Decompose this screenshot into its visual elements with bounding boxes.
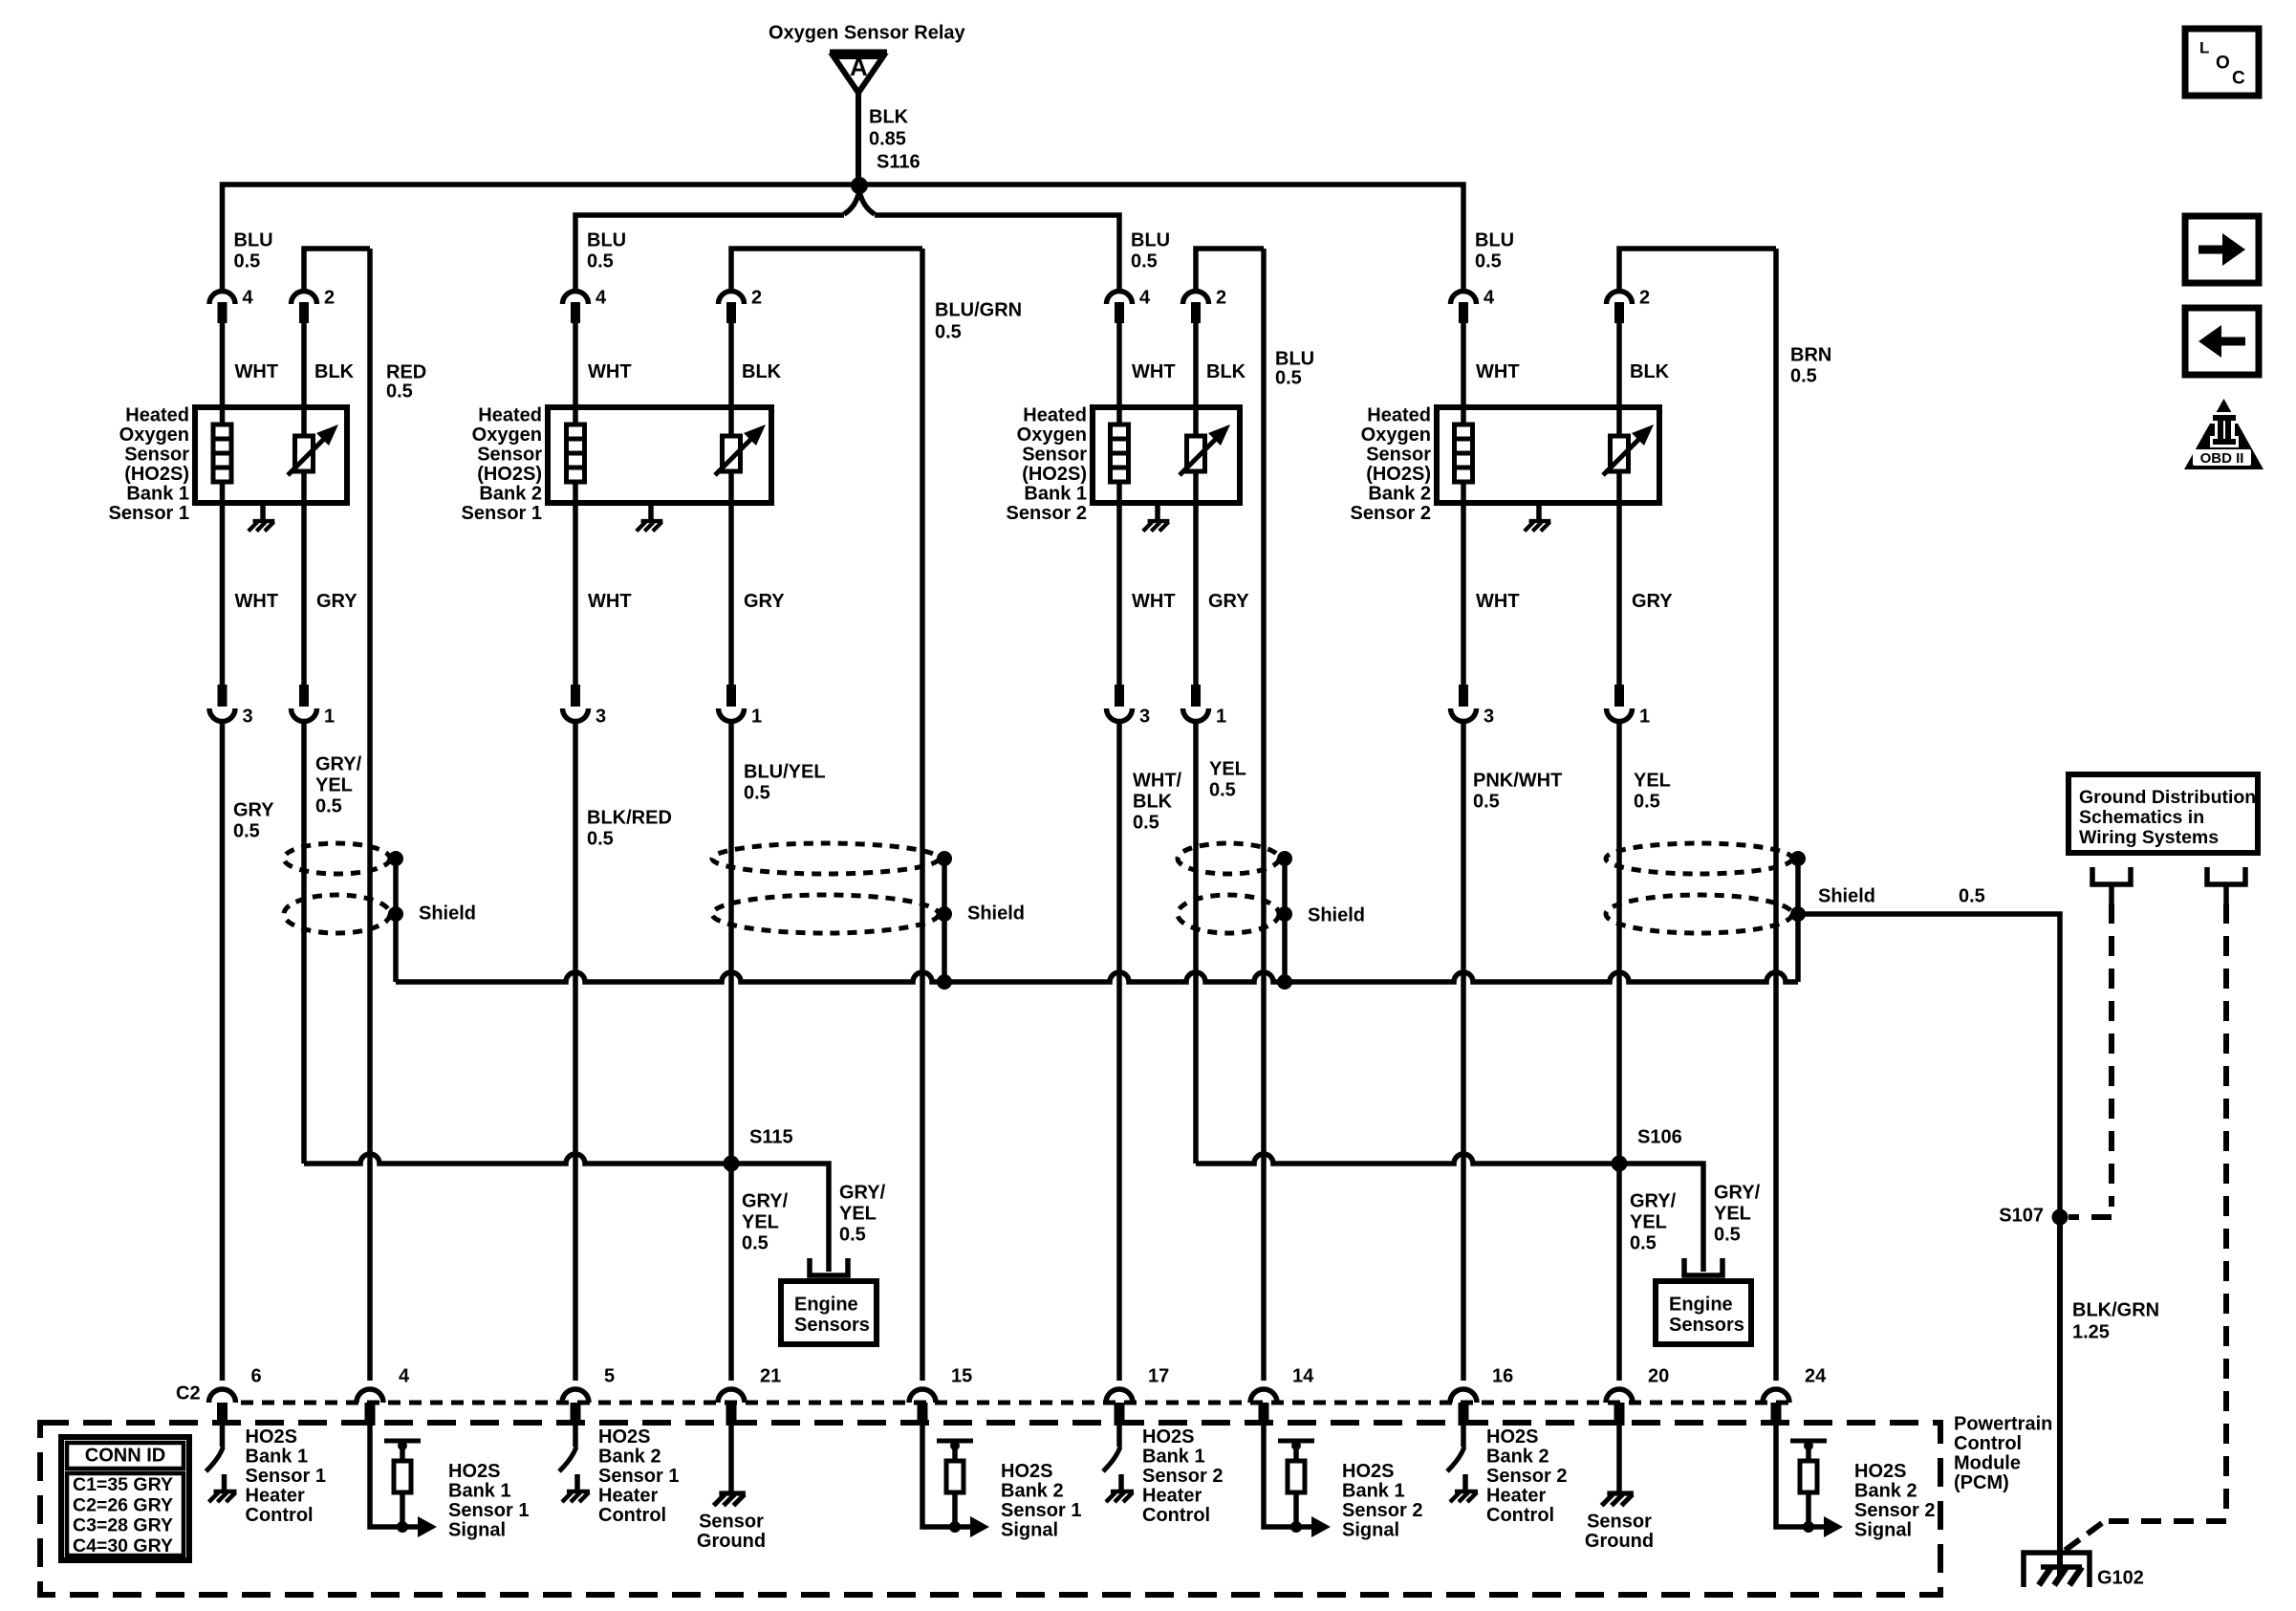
connector pin 1 of HO2S unit 3 bbox=[1183, 708, 1209, 722]
svg-text:0.5: 0.5 bbox=[744, 782, 770, 803]
svg-text:Control: Control bbox=[1486, 1505, 1554, 1526]
node S107 junction dot bbox=[2052, 1209, 2069, 1226]
PCM connector pin 21 bbox=[718, 1389, 745, 1403]
svg-text:C4=30 GRY: C4=30 GRY bbox=[73, 1535, 173, 1557]
wire shield drain unit 1 bbox=[393, 859, 399, 914]
wire GRY/YEL unit1 down to S115 run bbox=[301, 722, 307, 1164]
LOC icon box bbox=[2185, 29, 2259, 96]
receptacle to engine sensors (right) bbox=[1684, 1258, 1722, 1275]
svg-text:Sensor: Sensor bbox=[1022, 444, 1087, 465]
svg-text:4: 4 bbox=[1139, 287, 1151, 308]
connector pin 2 of HO2S unit 1 bbox=[292, 292, 317, 305]
svg-text:Ground: Ground bbox=[697, 1531, 766, 1552]
node S116 junction dot bbox=[851, 177, 868, 194]
svg-text:Bank 2: Bank 2 bbox=[1368, 483, 1431, 504]
ground below HO2S box unit 3 bbox=[1155, 503, 1160, 521]
svg-text:0.5: 0.5 bbox=[1475, 250, 1502, 272]
svg-text:Shield: Shield bbox=[967, 903, 1025, 924]
switch + ground for pin 5 heater control bbox=[573, 1426, 578, 1447]
svg-text:Control: Control bbox=[1954, 1433, 2022, 1454]
svg-text:Bank 1: Bank 1 bbox=[448, 1480, 511, 1501]
svg-text:(HO2S): (HO2S) bbox=[477, 464, 542, 485]
svg-text:GRY: GRY bbox=[233, 799, 274, 820]
svg-text:0.5: 0.5 bbox=[742, 1232, 769, 1253]
node S115 junction dot bbox=[724, 1156, 740, 1172]
svg-text:1: 1 bbox=[751, 706, 762, 727]
svg-text:HO2S: HO2S bbox=[1854, 1461, 1906, 1482]
svg-text:Oxygen Sensor Relay: Oxygen Sensor Relay bbox=[769, 22, 966, 43]
svg-text:WHT/: WHT/ bbox=[1133, 770, 1182, 791]
shield drain dots unit 4 bbox=[1790, 851, 1806, 866]
svg-text:WHT: WHT bbox=[588, 361, 632, 382]
connector pin 4 of HO2S unit 3 bbox=[1107, 292, 1133, 305]
wire shield drain unit 4 bbox=[1795, 859, 1801, 914]
svg-text:S116: S116 bbox=[877, 151, 921, 172]
svg-text:HO2S: HO2S bbox=[448, 1461, 500, 1482]
PCM connector pin 6 bbox=[209, 1389, 236, 1403]
svg-text:0.5: 0.5 bbox=[234, 250, 261, 272]
wire Shield 0.5 run to S107 bbox=[1798, 914, 2060, 1217]
PCM connector pin 24 bbox=[1763, 1389, 1789, 1403]
shield braid (dashed) unit 3 bbox=[1178, 843, 1279, 874]
ground below HO2S box unit 4 bbox=[1536, 503, 1542, 521]
svg-text:Engine: Engine bbox=[1669, 1294, 1733, 1315]
wire shield drain unit4 riser bbox=[1795, 914, 1801, 982]
svg-text:3: 3 bbox=[1484, 706, 1494, 727]
svg-text:(PCM): (PCM) bbox=[1954, 1472, 2009, 1493]
svg-text:Heater: Heater bbox=[1142, 1485, 1202, 1506]
wire BLK sensor lead unit 3 bbox=[1193, 323, 1199, 686]
svg-text:BLU: BLU bbox=[587, 229, 626, 250]
right arrow icon bbox=[2185, 216, 2259, 283]
wire WHT/BLK unit3 to PCM pin17 bbox=[1116, 722, 1122, 1381]
shield braid (dashed) unit 4 bbox=[1606, 843, 1792, 874]
svg-text:Shield: Shield bbox=[1818, 885, 1875, 906]
svg-text:5: 5 bbox=[604, 1365, 615, 1386]
svg-text:GRY/: GRY/ bbox=[839, 1182, 886, 1203]
svg-text:Engine: Engine bbox=[794, 1294, 858, 1315]
PCM connector pin 14 bbox=[1250, 1389, 1277, 1403]
svg-text:Heated: Heated bbox=[1367, 404, 1431, 425]
svg-text:0.5: 0.5 bbox=[1209, 779, 1236, 800]
wire RED 0.5 to PCM pin4 bbox=[367, 249, 373, 1381]
svg-text:0.5: 0.5 bbox=[1630, 1232, 1657, 1253]
svg-text:WHT: WHT bbox=[588, 591, 632, 612]
PCM connector pin 4 bbox=[357, 1389, 383, 1403]
svg-text:Sensor 1: Sensor 1 bbox=[246, 1466, 326, 1487]
wire shield bus with hops bbox=[396, 972, 1798, 982]
svg-text:0.5: 0.5 bbox=[587, 828, 614, 849]
shield braid (dashed) unit 1 bbox=[284, 843, 390, 874]
svg-text:HO2S: HO2S bbox=[1486, 1426, 1538, 1448]
wire riser from pin 2 corner unit 1 bbox=[304, 249, 370, 292]
dashed wire from left receptacle to S107 bbox=[2109, 903, 2114, 1207]
wire riser from pin 2 corner unit 2 bbox=[731, 249, 922, 292]
svg-text:BLK: BLK bbox=[869, 106, 909, 127]
svg-text:1: 1 bbox=[1639, 706, 1650, 727]
svg-text:WHT: WHT bbox=[1476, 361, 1520, 382]
svg-text:Bank 2: Bank 2 bbox=[479, 483, 542, 504]
wire shield drain unit 2 bbox=[942, 859, 947, 914]
svg-text:HO2S: HO2S bbox=[598, 1426, 650, 1448]
svg-text:4: 4 bbox=[596, 287, 607, 308]
wire S115 run from unit1 bbox=[304, 1154, 731, 1164]
svg-text:Ground: Ground bbox=[1585, 1531, 1654, 1552]
receptacle right under ground distribution box bbox=[2207, 867, 2245, 884]
node shield bus junction unit2 bbox=[937, 974, 952, 990]
svg-text:0.5: 0.5 bbox=[1275, 367, 1302, 388]
svg-text:Sensor 1: Sensor 1 bbox=[1001, 1500, 1081, 1521]
HO2S sensor box unit 2 bbox=[548, 407, 771, 503]
switch + ground for pin 6 heater control bbox=[220, 1426, 226, 1447]
svg-text:Ground Distribution: Ground Distribution bbox=[2079, 787, 2256, 808]
svg-text:CONN ID: CONN ID bbox=[85, 1445, 165, 1466]
svg-text:YEL: YEL bbox=[1630, 1211, 1667, 1232]
svg-text:Sensor: Sensor bbox=[477, 444, 542, 465]
wire S106 branch to engine sensors bbox=[1619, 1164, 1703, 1272]
signal branch for pin 24 bbox=[1776, 1426, 1809, 1527]
resistor arrow unit 4 bbox=[1603, 435, 1643, 475]
resistor arrow unit 1 bbox=[288, 435, 328, 475]
svg-text:(HO2S): (HO2S) bbox=[1366, 464, 1431, 485]
wire WHT heater feed unit 3 bbox=[1116, 323, 1122, 686]
svg-text:WHT: WHT bbox=[235, 591, 279, 612]
svg-text:1: 1 bbox=[324, 706, 335, 727]
svg-text:Sensor 1: Sensor 1 bbox=[448, 1500, 529, 1521]
svg-text:Sensor: Sensor bbox=[699, 1511, 764, 1532]
svg-text:Control: Control bbox=[1142, 1505, 1210, 1526]
wire WHT heater feed unit 4 bbox=[1461, 323, 1466, 686]
wire riser from pin 2 corner unit 4 bbox=[1619, 249, 1776, 292]
svg-text:WHT: WHT bbox=[1476, 591, 1520, 612]
svg-text:Signal: Signal bbox=[1854, 1519, 1912, 1540]
switch + ground for pin 17 heater control bbox=[1116, 1426, 1122, 1447]
svg-text:Sensor 2: Sensor 2 bbox=[1007, 503, 1087, 524]
svg-text:0.5: 0.5 bbox=[935, 321, 962, 342]
svg-text:Module: Module bbox=[1954, 1452, 2021, 1473]
wire BLK/RED unit2 to PCM pin5 bbox=[573, 722, 578, 1381]
OBD II icon bbox=[2184, 399, 2264, 469]
svg-text:Powertrain: Powertrain bbox=[1954, 1413, 2052, 1434]
connector pin 3 of HO2S unit 3 bbox=[1107, 708, 1133, 722]
svg-text:C3=28 GRY: C3=28 GRY bbox=[73, 1515, 173, 1536]
shield drain dots unit 3 bbox=[1277, 851, 1292, 866]
svg-text:Bank 2: Bank 2 bbox=[1854, 1480, 1917, 1501]
wire WHT heater feed unit 2 bbox=[573, 323, 578, 686]
svg-text:Sensors: Sensors bbox=[1669, 1315, 1744, 1336]
wire main supply bus (S116 top run) bbox=[223, 185, 1464, 292]
svg-text:Sensor 2: Sensor 2 bbox=[1342, 1500, 1422, 1521]
wire S116 split right leg bbox=[859, 191, 875, 214]
wire shield drain unit1 to bus bbox=[393, 914, 399, 982]
svg-text:Sensors: Sensors bbox=[794, 1315, 870, 1336]
svg-text:17: 17 bbox=[1148, 1365, 1169, 1386]
svg-text:0.5: 0.5 bbox=[1133, 812, 1159, 833]
svg-text:Heated: Heated bbox=[478, 404, 542, 425]
shield braid (dashed) unit 2 bbox=[712, 843, 939, 874]
svg-text:Bank 2: Bank 2 bbox=[1486, 1446, 1549, 1467]
sensor ground for pin 20 bbox=[1616, 1426, 1622, 1493]
svg-text:Signal: Signal bbox=[1342, 1519, 1399, 1540]
svg-text:2: 2 bbox=[1216, 287, 1226, 308]
wire YEL unit4 through S106 to pin20 bbox=[1616, 722, 1622, 1381]
svg-text:BLU: BLU bbox=[1475, 229, 1514, 250]
svg-text:Bank 1: Bank 1 bbox=[1342, 1480, 1405, 1501]
svg-text:BLK: BLK bbox=[1133, 791, 1173, 812]
svg-text:YEL: YEL bbox=[742, 1211, 779, 1232]
svg-text:BLU/GRN: BLU/GRN bbox=[935, 299, 1022, 320]
connector pin 1 of HO2S unit 2 bbox=[719, 708, 745, 722]
variable sense resistor unit 1 bbox=[295, 436, 314, 471]
signal branch for pin 4 bbox=[370, 1426, 402, 1527]
wire BLK sensor lead unit 1 bbox=[301, 323, 307, 686]
svg-text:YEL: YEL bbox=[1634, 770, 1671, 791]
resistor arrow unit 2 bbox=[715, 435, 755, 475]
wire PNK/WHT unit4 to PCM pin16 bbox=[1461, 722, 1466, 1381]
svg-text:Bank 1: Bank 1 bbox=[1142, 1446, 1205, 1467]
svg-text:Bank 2: Bank 2 bbox=[598, 1446, 661, 1467]
svg-text:Sensor 2: Sensor 2 bbox=[1351, 503, 1431, 524]
HO2S sensor box unit 4 bbox=[1437, 407, 1659, 503]
PCM connector pin 17 bbox=[1106, 1389, 1133, 1403]
svg-text:BLK/GRN: BLK/GRN bbox=[2072, 1299, 2159, 1320]
wire GRY 0.5 unit1 to PCM pin6 bbox=[220, 722, 226, 1381]
svg-text:Shield: Shield bbox=[1308, 904, 1365, 925]
signal branch for pin 15 bbox=[922, 1426, 955, 1527]
svg-text:WHT: WHT bbox=[235, 361, 279, 382]
engine sensors box (right) bbox=[1656, 1281, 1751, 1344]
svg-text:Sensor 1: Sensor 1 bbox=[109, 503, 189, 524]
connector pin 4 of HO2S unit 4 bbox=[1451, 292, 1477, 305]
wire shield drain unit 3 bbox=[1282, 859, 1288, 914]
svg-text:YEL: YEL bbox=[1714, 1203, 1751, 1224]
connector pin 4 of HO2S unit 2 bbox=[563, 292, 589, 305]
svg-text:Sensor: Sensor bbox=[1587, 1511, 1652, 1532]
wire YEL unit3 down to S106 run bbox=[1193, 722, 1199, 1164]
svg-text:HO2S: HO2S bbox=[1001, 1461, 1052, 1482]
svg-text:3: 3 bbox=[243, 706, 253, 727]
wire S115 branch to engine sensors bbox=[731, 1164, 829, 1272]
svg-text:20: 20 bbox=[1648, 1365, 1669, 1386]
svg-text:Bank 2: Bank 2 bbox=[1001, 1480, 1064, 1501]
left arrow icon bbox=[2185, 308, 2259, 375]
svg-text:BRN: BRN bbox=[1790, 344, 1831, 365]
engine sensors box (left) bbox=[781, 1281, 877, 1344]
wire BRN 0.5 to PCM pin24 bbox=[1773, 249, 1779, 1381]
svg-text:C: C bbox=[2232, 69, 2245, 89]
wire shield drain unit2 to bus bbox=[942, 914, 947, 982]
PCM connector pin 5 bbox=[562, 1389, 589, 1403]
connector pin 1 of HO2S unit 1 bbox=[292, 708, 317, 722]
svg-text:BLU: BLU bbox=[1275, 348, 1314, 369]
wire WHT heater feed unit 1 bbox=[220, 323, 226, 686]
svg-text:Bank 1: Bank 1 bbox=[126, 483, 189, 504]
sensor ground for pin 21 bbox=[728, 1426, 734, 1493]
svg-text:Heater: Heater bbox=[1486, 1485, 1546, 1506]
variable sense resistor unit 4 bbox=[1611, 436, 1629, 471]
PCM connector dashed line bbox=[241, 1401, 1793, 1405]
svg-text:0.5: 0.5 bbox=[1959, 885, 1985, 906]
svg-text:Sensor: Sensor bbox=[1366, 444, 1431, 465]
svg-text:BLU: BLU bbox=[234, 229, 273, 250]
svg-text:BLK: BLK bbox=[314, 361, 355, 382]
heater element unit 1 bbox=[213, 425, 231, 482]
svg-text:1: 1 bbox=[1216, 706, 1226, 727]
connector pin 1 of HO2S unit 4 bbox=[1607, 708, 1633, 722]
wire riser from pin 2 corner unit 3 bbox=[1196, 249, 1264, 292]
svg-text:C2=26 GRY: C2=26 GRY bbox=[73, 1494, 173, 1515]
wire BLU 0.5 to PCM pin14 bbox=[1261, 249, 1267, 1381]
wire BLK sensor lead unit 4 bbox=[1616, 323, 1622, 686]
svg-text:1.25: 1.25 bbox=[2072, 1321, 2110, 1342]
node shield bus junction unit3 bbox=[1277, 974, 1292, 990]
HO2S sensor box unit 1 bbox=[195, 407, 347, 503]
svg-text:Signal: Signal bbox=[448, 1519, 506, 1540]
svg-text:GRY/: GRY/ bbox=[1630, 1190, 1677, 1211]
svg-text:2: 2 bbox=[751, 287, 762, 308]
svg-text:0.5: 0.5 bbox=[1473, 791, 1500, 812]
svg-text:YEL: YEL bbox=[315, 774, 353, 795]
svg-text:HO2S: HO2S bbox=[1142, 1426, 1194, 1448]
svg-text:HO2S: HO2S bbox=[1342, 1461, 1394, 1482]
relay symbol A (fuse tap triangle) bbox=[830, 50, 887, 56]
svg-text:Signal: Signal bbox=[1001, 1519, 1058, 1540]
svg-text:Bank 1: Bank 1 bbox=[1024, 483, 1087, 504]
connector pin 2 of HO2S unit 4 bbox=[1607, 292, 1633, 305]
svg-text:0.5: 0.5 bbox=[1790, 365, 1817, 386]
svg-text:YEL: YEL bbox=[1209, 758, 1246, 779]
svg-text:GRY/: GRY/ bbox=[1714, 1182, 1761, 1203]
svg-text:Oxygen: Oxygen bbox=[1361, 425, 1431, 446]
svg-text:Oxygen: Oxygen bbox=[1017, 425, 1087, 446]
svg-text:WHT: WHT bbox=[1132, 591, 1176, 612]
svg-text:C1=35 GRY: C1=35 GRY bbox=[73, 1474, 173, 1495]
svg-text:BLU/YEL: BLU/YEL bbox=[744, 761, 826, 782]
connector pin 3 of HO2S unit 1 bbox=[209, 708, 235, 722]
svg-text:Shield: Shield bbox=[419, 903, 476, 924]
svg-text:Wiring Systems: Wiring Systems bbox=[2079, 827, 2219, 848]
svg-text:3: 3 bbox=[596, 706, 606, 727]
svg-text:Bank 1: Bank 1 bbox=[246, 1446, 309, 1467]
heater element unit 3 bbox=[1111, 425, 1129, 482]
ground below HO2S box unit 1 bbox=[260, 503, 266, 521]
ground below HO2S box unit 2 bbox=[648, 503, 654, 521]
svg-text:Sensor 1: Sensor 1 bbox=[462, 503, 542, 524]
resistor arrow unit 3 bbox=[1180, 435, 1220, 475]
svg-text:BLU: BLU bbox=[1131, 229, 1170, 250]
svg-text:0.5: 0.5 bbox=[839, 1224, 866, 1245]
svg-text:GRY/: GRY/ bbox=[315, 753, 362, 774]
svg-text:O: O bbox=[2216, 54, 2230, 74]
svg-text:Sensor 1: Sensor 1 bbox=[598, 1466, 679, 1487]
svg-text:GRY/: GRY/ bbox=[742, 1190, 789, 1211]
svg-text:0.5: 0.5 bbox=[1714, 1224, 1741, 1245]
svg-text:Heater: Heater bbox=[246, 1485, 305, 1506]
ground distribution schematics box bbox=[2069, 774, 2258, 853]
svg-text:0.85: 0.85 bbox=[869, 128, 906, 149]
connector pin 2 of HO2S unit 2 bbox=[719, 292, 745, 305]
wire second supply run to units 2 and 3 bbox=[575, 215, 844, 292]
svg-text:GRY: GRY bbox=[1632, 591, 1673, 612]
connector pin 3 of HO2S unit 2 bbox=[563, 708, 589, 722]
PCM connector pin 16 bbox=[1450, 1389, 1477, 1403]
svg-text:0.5: 0.5 bbox=[587, 250, 614, 272]
ground G102 symbol bbox=[2024, 1553, 2090, 1587]
svg-text:S107: S107 bbox=[1999, 1205, 2044, 1226]
node S106 junction dot bbox=[1612, 1156, 1628, 1172]
svg-text:BLK: BLK bbox=[1206, 361, 1246, 382]
variable sense resistor unit 3 bbox=[1187, 436, 1205, 471]
svg-text:0.5: 0.5 bbox=[386, 381, 413, 402]
svg-text:GRY: GRY bbox=[1208, 591, 1249, 612]
heater element unit 2 bbox=[567, 425, 585, 482]
svg-text:BLK/RED: BLK/RED bbox=[587, 807, 672, 828]
svg-text:Control: Control bbox=[246, 1505, 314, 1526]
receptacle left under ground distribution box bbox=[2092, 867, 2131, 884]
dashed wire from right receptacle to G102 bbox=[2223, 903, 2229, 1513]
svg-text:Heated: Heated bbox=[1023, 404, 1087, 425]
wire BLU/GRN to PCM pin15 bbox=[920, 249, 925, 1381]
svg-text:6: 6 bbox=[251, 1365, 262, 1386]
svg-text:L: L bbox=[2199, 38, 2209, 56]
svg-text:Sensor 2: Sensor 2 bbox=[1142, 1466, 1223, 1487]
svg-text:4: 4 bbox=[1484, 287, 1495, 308]
svg-text:GRY: GRY bbox=[744, 591, 785, 612]
svg-text:15: 15 bbox=[951, 1365, 972, 1386]
shield drain dots unit 2 bbox=[937, 851, 952, 866]
svg-text:BLK: BLK bbox=[742, 361, 782, 382]
svg-text:Oxygen: Oxygen bbox=[119, 425, 189, 446]
svg-text:0.5: 0.5 bbox=[233, 820, 260, 841]
svg-text:(HO2S): (HO2S) bbox=[124, 464, 189, 485]
svg-text:Heater: Heater bbox=[598, 1485, 658, 1506]
HO2S sensor box unit 3 bbox=[1093, 407, 1240, 503]
svg-text:2: 2 bbox=[1639, 287, 1650, 308]
svg-text:21: 21 bbox=[760, 1365, 781, 1386]
svg-text:Control: Control bbox=[598, 1505, 666, 1526]
CONN ID box bbox=[61, 1437, 189, 1560]
svg-text:HO2S: HO2S bbox=[246, 1426, 297, 1448]
connector pin 4 of HO2S unit 1 bbox=[209, 292, 235, 305]
variable sense resistor unit 2 bbox=[723, 436, 741, 471]
svg-text:Schematics in: Schematics in bbox=[2079, 807, 2204, 828]
svg-text:0.5: 0.5 bbox=[1131, 250, 1158, 272]
svg-text:Heated: Heated bbox=[125, 404, 189, 425]
svg-text:3: 3 bbox=[1139, 706, 1150, 727]
wire BLU/YEL unit2 through S115 to pin21 bbox=[728, 722, 734, 1381]
svg-text:S115: S115 bbox=[749, 1126, 793, 1147]
svg-text:RED: RED bbox=[386, 361, 426, 382]
PCM connector pin 15 bbox=[909, 1389, 936, 1403]
PCM connector pin 20 bbox=[1606, 1389, 1633, 1403]
svg-text:PNK/WHT: PNK/WHT bbox=[1473, 770, 1562, 791]
svg-text:(HO2S): (HO2S) bbox=[1022, 464, 1087, 485]
wire BLK sensor lead unit 2 bbox=[728, 323, 734, 686]
shield drain dots unit 1 bbox=[388, 851, 403, 866]
svg-text:S106: S106 bbox=[1637, 1126, 1682, 1147]
svg-text:C2: C2 bbox=[176, 1382, 201, 1404]
svg-text:Sensor: Sensor bbox=[124, 444, 189, 465]
svg-text:14: 14 bbox=[1292, 1365, 1314, 1386]
svg-text:Sensor 2: Sensor 2 bbox=[1854, 1500, 1935, 1521]
svg-text:2: 2 bbox=[324, 287, 335, 308]
svg-text:GRY: GRY bbox=[316, 591, 357, 612]
wire S116 split left leg bbox=[844, 191, 859, 214]
svg-text:0.5: 0.5 bbox=[1634, 791, 1660, 812]
connector pin 3 of HO2S unit 4 bbox=[1451, 708, 1477, 722]
svg-text:Oxygen: Oxygen bbox=[472, 425, 542, 446]
svg-text:G102: G102 bbox=[2097, 1567, 2144, 1588]
